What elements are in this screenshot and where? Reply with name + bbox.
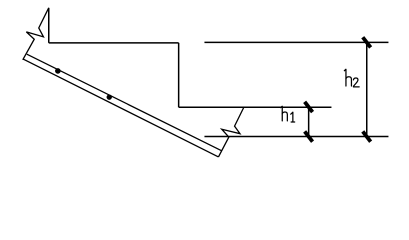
pipe top line (sloped conduit) bbox=[27, 54, 222, 151]
dimension line h1 vertical bbox=[308, 107, 310, 136]
tick mark h1 bottom bbox=[305, 131, 313, 141]
wire: middle horizontal (lower channel bottom) bbox=[179, 106, 332, 108]
tick mark h1 top bbox=[305, 102, 313, 112]
wall vertical (upstream channel wall) bbox=[48, 8, 50, 43]
tick mark h2 top bbox=[363, 37, 371, 47]
dot marker 2 on pipe bbox=[107, 94, 112, 99]
label h2: subscript 2 bbox=[353, 78, 359, 87]
dot marker 1 on pipe bbox=[55, 68, 61, 74]
label h1: letter h bbox=[281, 106, 283, 121]
wire: upstream channel bottom horizontal bbox=[49, 42, 179, 44]
dimension line h2 vertical bbox=[366, 42, 368, 136]
wire: step vertical drop bbox=[178, 43, 180, 107]
label h1: subscript 1 bbox=[291, 112, 293, 122]
pipe bottom line (sloped conduit) bbox=[23, 59, 218, 157]
break symbol (flash) upper-left bbox=[23, 8, 49, 60]
node: upper water level line bbox=[204, 41, 388, 43]
tick mark h2 bottom bbox=[363, 131, 371, 141]
node: lower water level line bbox=[204, 136, 388, 138]
label h2: letter h bbox=[344, 69, 346, 86]
break symbol (flash) lower-right bbox=[218, 107, 243, 157]
